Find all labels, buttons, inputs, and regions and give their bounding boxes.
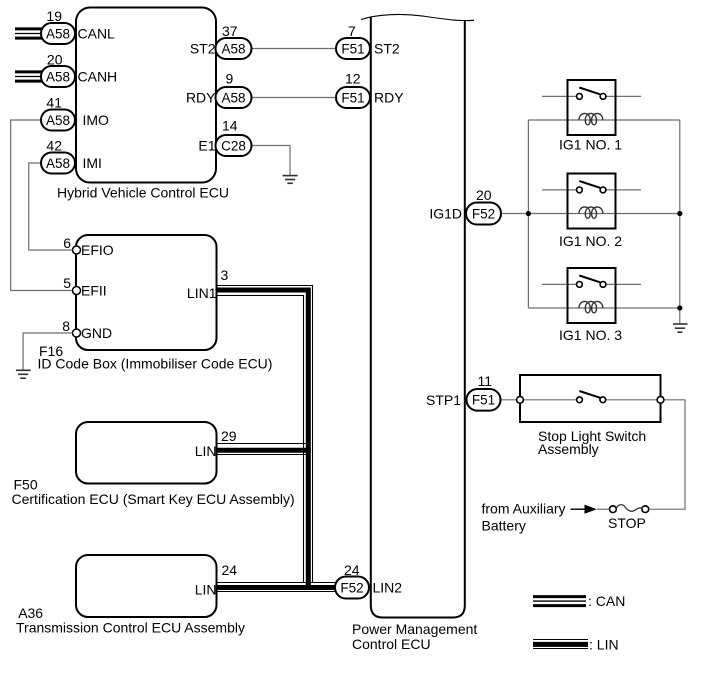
svg-text:Transmission Control ECU Assem: Transmission Control ECU Assembly	[16, 620, 245, 636]
svg-text:Certification ECU (Smart Key E: Certification ECU (Smart Key ECU Assembl…	[12, 491, 295, 507]
svg-text:6: 6	[63, 235, 71, 251]
relay K2: IG1 NO. 2	[542, 174, 641, 249]
wire: CAN bus stub CANL	[15, 29, 42, 38]
connector C28 pin 14 (E1)	[198, 118, 251, 157]
switch S1: Stop Light Switch Assembly	[517, 375, 664, 457]
svg-text:20: 20	[47, 52, 63, 68]
pin EFIO 6	[63, 235, 114, 258]
svg-text:A58: A58	[46, 26, 70, 41]
svg-text:CANL: CANL	[78, 26, 116, 42]
relay K3: IG1 NO. 3	[542, 268, 641, 343]
connector A58 pin 37 (ST2)	[190, 23, 252, 59]
ECU U3: ID Code Box (Immobiliser Code ECU)	[38, 235, 273, 372]
svg-text:Hybrid Vehicle Control ECU: Hybrid Vehicle Control ECU	[57, 184, 229, 200]
wire: STP1 row	[501, 399, 578, 401]
wire: IMO to EFII elbow	[11, 120, 73, 291]
wire: right coil trunk to ground	[679, 120, 681, 324]
node LIN trunk thin outline bottom	[217, 296, 304, 583]
svg-text:: CAN: : CAN	[588, 593, 625, 609]
legend: LIN line sample	[533, 637, 619, 653]
ECU U4: Certification ECU F50 box	[12, 422, 295, 507]
svg-text:14: 14	[222, 118, 238, 134]
wire: E1 to ground	[252, 146, 291, 176]
svg-text:LIN: LIN	[195, 582, 217, 598]
svg-text:CANH: CANH	[78, 69, 118, 85]
svg-text:LIN: LIN	[195, 443, 217, 459]
connector A58 pin 42 (IMI)	[41, 138, 102, 174]
svg-text:24: 24	[344, 562, 360, 578]
ground (F16)	[16, 370, 31, 378]
svg-text:IMO: IMO	[83, 112, 110, 128]
svg-text:RDY: RDY	[186, 90, 216, 106]
wire: from auxiliary battery arrow	[482, 500, 610, 533]
svg-text:9: 9	[226, 71, 234, 87]
svg-text:A58: A58	[221, 41, 245, 56]
svg-text:from Auxiliary: from Auxiliary	[482, 500, 566, 516]
svg-text:LIN1: LIN1	[187, 285, 217, 301]
svg-text:IG1 NO. 3: IG1 NO. 3	[559, 327, 622, 343]
svg-text:EFIO: EFIO	[81, 242, 114, 258]
ground (E1)	[283, 176, 298, 184]
svg-text:GND: GND	[81, 325, 112, 341]
svg-text:3: 3	[221, 267, 229, 283]
wire: relay3 coil wires	[528, 307, 679, 309]
wire: F50 LIN thick line	[217, 448, 311, 453]
wire: A36-LIN2 thick line	[217, 585, 337, 590]
svg-text:19: 19	[46, 8, 62, 24]
svg-text:F51: F51	[472, 393, 495, 408]
pin LIN1 3	[187, 267, 229, 301]
svg-text:IMI: IMI	[83, 155, 102, 171]
wire: IMI to EFIO elbow	[29, 163, 73, 250]
wire: F50 LIN thin outlines	[217, 443, 307, 445]
wire: LIN2 thin outlines	[217, 582, 337, 584]
svg-text:A58: A58	[46, 69, 70, 84]
svg-text:LIN2: LIN2	[373, 580, 403, 596]
connector A58 pin 20 (CANH)	[41, 52, 117, 88]
svg-text:EFII: EFII	[81, 283, 107, 299]
svg-text:Power Management: Power Management	[352, 621, 477, 637]
wire: IG1D from F52 to relay coils	[501, 213, 680, 215]
svg-text:IG1 NO. 2: IG1 NO. 2	[559, 233, 622, 249]
svg-text:Assembly: Assembly	[538, 441, 599, 457]
svg-text:37: 37	[222, 23, 238, 39]
connector F52 pin 20 (IG1D)	[429, 187, 501, 225]
connector F51 pin 7 (ST2)	[336, 23, 400, 59]
wire: LIN1 thick line and trunk	[217, 290, 308, 588]
svg-text:E1: E1	[198, 138, 215, 154]
svg-text:A58: A58	[46, 113, 70, 128]
node junction dot left (IG1D)	[526, 211, 531, 216]
svg-text:IG1 NO. 1: IG1 NO. 1	[559, 136, 622, 152]
svg-text:C28: C28	[221, 138, 246, 153]
svg-text:24: 24	[222, 562, 238, 578]
wire: break squiggle at top of Power Management ECU	[361, 14, 474, 20]
svg-text:STP1: STP1	[426, 392, 461, 408]
svg-text:ST2: ST2	[374, 41, 400, 57]
svg-text:Control ECU: Control ECU	[352, 636, 431, 652]
svg-text:ST2: ST2	[190, 41, 216, 57]
svg-text:42: 42	[46, 138, 62, 154]
wire: ST2 A58 to F51	[252, 48, 337, 50]
svg-text:F52: F52	[472, 206, 495, 221]
svg-text:29: 29	[221, 428, 237, 444]
node junction dot right (IG1D)	[677, 211, 682, 216]
wire: left coil trunk	[527, 120, 529, 308]
pin GND 8	[62, 318, 112, 341]
wire: relay1 coil wires	[528, 119, 679, 121]
connector A58 pin 9 (RDY)	[186, 71, 252, 109]
legend: CAN line sample	[533, 593, 625, 609]
svg-text:Battery: Battery	[482, 517, 526, 533]
svg-text:F51: F51	[341, 41, 364, 56]
svg-text:F52: F52	[340, 580, 363, 595]
svg-text:12: 12	[345, 71, 361, 87]
connector A58 pin 19 (CANL)	[41, 8, 115, 44]
svg-text:STOP: STOP	[608, 515, 646, 531]
fuse STOP	[608, 505, 649, 531]
svg-text:A58: A58	[46, 156, 70, 171]
connector A58 pin 41 (IMO)	[41, 95, 109, 131]
svg-text:41: 41	[46, 95, 62, 111]
svg-text:5: 5	[63, 275, 71, 291]
svg-text:8: 8	[62, 318, 70, 334]
svg-text:ID Code Box (Immobiliser Code: ID Code Box (Immobiliser Code ECU)	[38, 356, 273, 372]
svg-text:RDY: RDY	[374, 90, 404, 106]
svg-text:11: 11	[478, 373, 493, 389]
wire: RDY A58 to F51	[252, 97, 337, 99]
ECU U5: Transmission Control ECU A36 box	[16, 555, 245, 636]
node junction dot right (relay3 coil)	[677, 305, 682, 310]
svg-text:IG1D: IG1D	[429, 206, 462, 222]
connector F52 pin 24 (LIN2)	[335, 562, 402, 599]
ground (relay coils)	[673, 324, 688, 332]
svg-text:20: 20	[476, 187, 492, 203]
svg-text:F51: F51	[341, 90, 364, 105]
ECU U2: Power Management Control ECU box	[352, 14, 477, 651]
connector F51 pin 11 (STP1)	[426, 373, 501, 411]
node LIN trunk thin outline top	[217, 286, 313, 583]
ECU U1: Hybrid Vehicle Control ECU box	[57, 8, 229, 201]
relay K1: IG1 NO. 1	[542, 80, 641, 152]
svg-text:A58: A58	[221, 90, 245, 105]
wire: CAN bus stub CANH	[15, 72, 42, 81]
connector F51 pin 12 (RDY)	[336, 71, 404, 109]
wire: GND to ground	[23, 333, 72, 370]
svg-text:: LIN: : LIN	[589, 637, 619, 653]
svg-text:7: 7	[348, 23, 356, 39]
pin EFII 5	[63, 275, 106, 299]
